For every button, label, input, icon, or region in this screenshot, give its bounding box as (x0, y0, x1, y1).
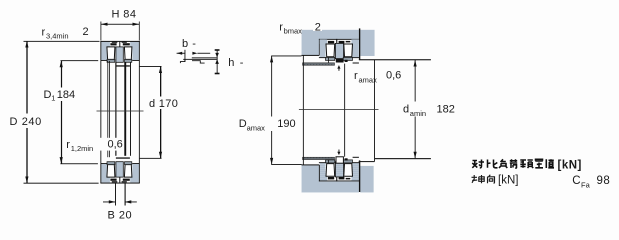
ring profile lug (192, 61, 205, 63)
b right arrow (192, 52, 197, 55)
svg-text:D 240: D 240 (10, 116, 42, 128)
D_amax bottom arrowhead (270, 158, 273, 165)
bearing cutout top: white box (319, 39, 359, 55)
left figure top border (100, 41, 139, 42)
cutout outline left edge bottom (318, 165, 321, 182)
D_amax top arrowhead (270, 56, 273, 63)
dimension B: left arrow (103, 201, 115, 204)
housing bore edge line top (302, 55, 320, 56)
svg-text:3,4min: 3,4min (46, 32, 69, 41)
dimension D: bottom arrowhead (25, 177, 28, 184)
char 定 (535, 159, 543, 168)
d_amin top arrowhead (414, 60, 417, 67)
cage bar right (339, 41, 345, 43)
outer ring blue block left (101, 42, 107, 61)
washer bottom edge left (319, 56, 326, 59)
svg-text:r: r (66, 139, 70, 151)
svg-text:r: r (354, 70, 358, 82)
char 对 (472, 160, 484, 168)
label D1 184 (white backing) (42, 88, 74, 102)
dimension H: left arrowhead (101, 23, 108, 26)
bore vertical line a (106, 61, 109, 157)
char 负 (499, 159, 507, 168)
housing bore edge line bottom (302, 164, 320, 165)
cage center tick (336, 39, 337, 44)
svg-text:amin: amin (410, 109, 426, 118)
cutout outline bottom edge (319, 180, 359, 183)
dimension D1: bottom arrowhead (60, 157, 63, 164)
D_amax bottom extension line (271, 163, 301, 166)
left figure bottom border (100, 183, 139, 184)
cage strip right (343, 57, 352, 60)
label d_amin 182 (white backing) (402, 102, 456, 117)
housing block bottom (302, 165, 359, 193)
dimension D_amax: vertical line (270, 56, 273, 164)
roller right (344, 44, 353, 57)
dimension D1: top extension line (61, 59, 99, 62)
svg-text:r: r (279, 21, 283, 33)
outer ring blue block right (132, 42, 139, 61)
bore vertical line e (129, 62, 132, 156)
dimension D: vertical line (26, 41, 27, 183)
char 向 (488, 175, 495, 183)
dimension D1: vertical line (61, 61, 62, 164)
cage bar left (328, 41, 334, 43)
label r1,2min 0,6 (white backing) (65, 138, 124, 151)
svg-text:Fa: Fa (581, 180, 591, 189)
bore vertical line b (108, 61, 111, 157)
left figure outline right edge (138, 41, 141, 183)
top strip blue left (101, 42, 110, 47)
bearing cutout bottom: white box (319, 165, 359, 182)
CJK heading: 对比负荷额定值 (drawn strokes) (472, 159, 554, 168)
sleeve strip top (303, 63, 335, 66)
cage strip left (107, 59, 115, 62)
bore vertical line d (shaft washer right) (124, 62, 126, 156)
center column (335, 43, 343, 58)
svg-text:d: d (403, 104, 409, 116)
svg-text:190: 190 (277, 118, 295, 130)
dimension H: line (101, 23, 139, 26)
dimension d: top arrowhead (159, 67, 162, 74)
roller left (107, 47, 115, 60)
svg-text:C: C (572, 175, 580, 187)
svg-text:b: b (182, 38, 188, 50)
bore bar (336, 59, 344, 63)
ring profile upper line (192, 56, 217, 59)
svg-text:1: 1 (51, 94, 55, 103)
char 荷 (510, 159, 517, 168)
cage mark bar left (110, 43, 116, 45)
washer bottom edge right (352, 56, 359, 59)
housing block top (302, 30, 359, 56)
roller right (124, 47, 131, 60)
svg-text:98: 98 (597, 175, 611, 187)
svg-text:bmax: bmax (284, 27, 303, 36)
cage small mark right2 (346, 41, 351, 43)
centerline right figure (299, 108, 379, 111)
svg-text:[kN]: [kN] (558, 159, 582, 171)
top strip blue right (351, 39, 359, 44)
shaft surface line top (359, 59, 431, 60)
dimension H: right arrowhead (133, 23, 140, 26)
r_amax leader arrow bottom (338, 150, 341, 155)
char 比 (488, 160, 498, 168)
svg-text:184: 184 (57, 89, 75, 101)
outer ring bottom edge right (D1) (132, 59, 139, 62)
dimension B: left extension line (114, 184, 117, 206)
shaft shoulder face line (top) (359, 28, 360, 60)
right bearing interior (top, mirrored below) (319, 39, 359, 64)
dimension D1: bottom extension line (60, 162, 98, 165)
shoulder bottom line (359, 161, 375, 162)
label D_amax 190 (white backing) (237, 117, 296, 132)
left figure outline left edge (99, 41, 102, 183)
bearing section interior (top half, mirrored below) (101, 42, 140, 67)
svg-text:r: r (42, 27, 46, 39)
bearing interior mirrored to bottom half (101, 157, 140, 182)
shaft shoulder block bottom (360, 166, 373, 193)
char 轴 (472, 175, 485, 183)
svg-text:D: D (239, 118, 247, 130)
svg-text:0,6: 0,6 (386, 70, 401, 82)
dimension D: bottom extension line (24, 182, 99, 185)
char 值 (546, 159, 554, 168)
cage small mark right (122, 42, 127, 43)
label D 240 (white backing) (8, 114, 44, 129)
ring profile left foot (180, 59, 185, 63)
CJK line2: 轴向 (drawn strokes) (472, 175, 495, 183)
svg-text:0,6: 0,6 (108, 139, 123, 151)
b left arrow (177, 52, 186, 55)
D_amax top extension line (271, 55, 301, 58)
bore vertical line c (shaft washer left) (115, 62, 116, 156)
svg-text:-: - (192, 38, 196, 50)
outer washer margin right (353, 39, 359, 57)
right bearing interior mirrored to bottom half (319, 157, 359, 182)
svg-text:1,2min: 1,2min (71, 144, 94, 153)
svg-text:182: 182 (437, 104, 455, 116)
svg-text:H 84: H 84 (112, 9, 137, 21)
middle vertical: shaft edge (343, 64, 346, 157)
svg-text:-: - (240, 57, 244, 69)
cage strip left (326, 57, 335, 60)
middle vertical: housing bore left (302, 55, 305, 164)
washer face line right (353, 63, 359, 64)
cage mark bar right (123, 43, 130, 45)
shaft surface line bottom (375, 158, 431, 159)
centerline left figure (97, 110, 144, 113)
d_amin bottom arrowhead (414, 152, 417, 159)
outer washer margin left (320, 39, 326, 57)
svg-text:[kN]: [kN] (498, 174, 518, 186)
cage small mark left (112, 42, 118, 43)
svg-text:d: d (149, 98, 155, 110)
outer ring bottom edge left (D1) (101, 59, 108, 62)
svg-text:amax: amax (247, 123, 266, 132)
cutout outline left edge (318, 39, 321, 56)
middle vertical: shoulder OD (373, 60, 376, 162)
char 额 (520, 160, 533, 168)
top strip blue left (320, 39, 328, 44)
dimension d: bottom arrowhead (159, 152, 162, 159)
dimension B: right arrow (125, 201, 137, 204)
dimension D: top extension line (24, 40, 100, 43)
label d 170 (white backing) (148, 97, 181, 110)
cage strip right (125, 59, 132, 62)
dimension d: top extension line (140, 65, 162, 68)
cage center tick (119, 42, 120, 47)
roller left (326, 44, 335, 57)
svg-text:amax: amax (359, 75, 378, 84)
dimension H: left extension line (100, 22, 103, 41)
sleeve strip bottom (303, 157, 335, 159)
svg-text:B 20: B 20 (108, 210, 133, 222)
dimension D: top arrowhead (25, 41, 28, 48)
r_amax leader arrow top (338, 66, 341, 71)
svg-text:h: h (228, 57, 234, 69)
washer stub line (327, 58, 330, 63)
shaft shoulder block top (360, 30, 374, 56)
dimension d: vertical line (160, 67, 161, 159)
svg-text:2: 2 (315, 21, 321, 33)
dimension B: right extension line (125, 184, 126, 206)
dimension d: bottom extension line (140, 157, 162, 160)
label r_bmax 2 (white backing) (277, 21, 301, 35)
dimension H: right extension line (138, 22, 141, 41)
ring profile lower line (183, 58, 217, 61)
shaft washer bore bar (116, 65, 130, 66)
shaft washer center column (116, 47, 123, 62)
bore bar small (345, 60, 348, 62)
shaft shoulder face line (bottom) (359, 160, 360, 192)
svg-text:2: 2 (83, 26, 89, 38)
cutout outline top edge (319, 38, 359, 41)
dimension D1: top arrowhead (60, 61, 63, 67)
shaft washer bore box (bottom, hollow) (336, 157, 343, 163)
b boundary vertical line (184, 50, 187, 62)
h dimension arrow column (216, 50, 219, 74)
svg-text:D: D (44, 89, 52, 101)
top strip blue right (130, 42, 139, 47)
svg-text:170: 170 (159, 98, 179, 110)
dimension d_amin: vertical line (414, 60, 417, 158)
